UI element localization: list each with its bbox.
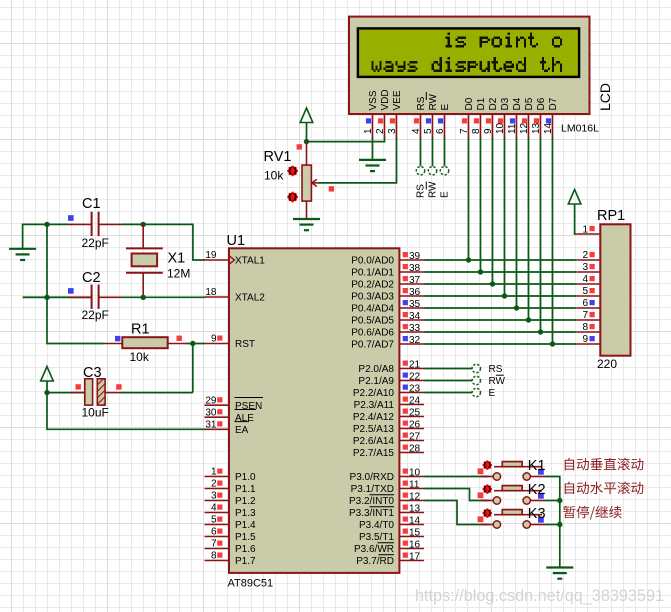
svg-text:11: 11 [409,479,420,490]
push button K2 [478,482,546,504]
wire P0.7 to RP1 [424,343,576,345]
junction D5/P0.5 [526,317,531,322]
svg-text:3: 3 [582,262,588,273]
power terminal C3 [41,367,54,382]
wire D2 down to P0.2 node [492,138,494,285]
wire D6 down to P0.6 node [540,138,542,333]
svg-text:C1: C1 [82,196,101,212]
svg-text:P0.4/AD4: P0.4/AD4 [351,304,394,315]
svg-text:21: 21 [409,359,421,370]
svg-text:9: 9 [211,334,217,345]
svg-text:P3.1/TXD: P3.1/TXD [351,484,394,495]
svg-text:P2.6/A14: P2.6/A14 [353,436,395,447]
LCD pin 6 (E) [435,104,451,139]
svg-text:E: E [440,104,451,111]
wire VSS pin1 to ground [372,138,374,161]
U1 pin 26 P2.5/A13 [353,419,424,435]
junction D6/P0.6 [538,329,543,334]
U1 pin 14 P3.4/T0 [359,515,424,531]
svg-text:9: 9 [483,128,494,134]
svg-text:VDD: VDD [380,89,391,110]
svg-text:11: 11 [507,123,518,134]
svg-text:3: 3 [387,128,398,134]
wire P3.2 to K3 [424,501,489,525]
svg-text:P0.5/AD5: P0.5/AD5 [351,316,394,327]
svg-text:10k: 10k [264,169,284,183]
svg-text:AT89C51: AT89C51 [228,578,274,590]
svg-text:E: E [440,191,451,198]
svg-text:5: 5 [582,286,588,297]
svg-text:17: 17 [409,551,421,562]
U1 pin 33 P0.6/AD6 [351,323,424,339]
svg-text:12: 12 [409,491,421,502]
LCD pin 7 (D0) [459,97,475,138]
RP1 pin 8 [576,322,600,333]
svg-text:P0.7/AD7: P0.7/AD7 [351,340,394,351]
wire LCD RS to terminal [420,138,422,167]
U1 pin 37 P0.2/AD2 [351,275,424,291]
svg-text:22: 22 [409,371,421,382]
RP1 pin 5 [576,286,600,297]
svg-text:4: 4 [582,274,588,285]
power terminal RV1 VDD [300,108,313,123]
svg-text:LCD: LCD [597,83,613,111]
ground under RV1 [293,219,320,230]
wire P0.5 to RP1 [424,319,576,321]
wire LCD E to terminal [444,138,446,167]
U1 pin 24 P2.3/A11 [354,395,424,411]
svg-text:24: 24 [409,395,421,406]
svg-text:K3: K3 [528,506,546,522]
U1 pin 13 P3.3/INT1 [349,503,424,519]
wire P0.2 to RP1 [424,283,576,285]
svg-text:P2.0/A8: P2.0/A8 [358,364,394,375]
wire VDD pin2 to RV1 top node [307,138,385,142]
svg-text:7: 7 [582,310,588,321]
svg-text:9: 9 [582,334,588,345]
terminal RS under LCD [416,167,424,175]
svg-text:P3.4/T0: P3.4/T0 [359,520,394,531]
wire D0 down to P0.0 node [468,138,470,261]
svg-text:27: 27 [409,431,421,442]
U1 pin 31 EA [205,420,249,436]
U1 pin 3 P1.2 [205,491,257,507]
U1 pin 12 P3.2/INT0 [349,491,424,507]
svg-text:RV1: RV1 [264,149,292,165]
LCD pin 5 (RW) [423,92,439,138]
svg-text:P0.2/AD2: P0.2/AD2 [351,280,394,291]
wire P3.0 to K1 [424,476,489,478]
resistor R1 [104,337,186,348]
wire VEE pin3 to RV1 wiper [318,138,397,183]
svg-text:RW: RW [489,376,506,387]
LCD screen [358,28,579,77]
svg-text:K2: K2 [528,482,546,498]
svg-text:10uF: 10uF [82,406,109,420]
svg-text:28: 28 [409,443,421,454]
U1 pin 9 RST [205,334,256,350]
svg-text:220: 220 [597,357,617,371]
svg-text:15: 15 [409,527,421,538]
capacitor C2 [23,285,122,309]
junction D1/P0.1 [478,269,483,274]
svg-text:8: 8 [211,551,217,562]
RP1 pin 7 [576,310,600,321]
svg-text:P2.3/A11: P2.3/A11 [354,400,395,411]
junction C1/X1/XTAL1 [44,222,49,227]
wire P0.0 to RP1 [424,259,576,261]
svg-text:RW: RW [428,93,439,110]
svg-text:25: 25 [409,407,421,418]
svg-text:D1: D1 [476,97,487,110]
U1 pin 19 XTAL1 [205,250,266,266]
wire D4 down to P0.4 node [516,138,518,309]
svg-text:D0: D0 [464,97,475,110]
wire LCD RW to terminal [432,138,434,167]
svg-text:RP1: RP1 [597,208,625,224]
svg-text:P0.3/AD3: P0.3/AD3 [351,292,394,303]
U1 pin 10 P3.0/RXD [350,467,424,483]
wire D1 down to P0.1 node [480,138,482,273]
svg-text:39: 39 [409,251,421,262]
potentiometer RV1 [302,142,318,219]
svg-text:P1.3: P1.3 [235,508,256,519]
wire left column C2 to R1 row [47,297,104,343]
svg-text:K1: K1 [528,458,546,474]
svg-text:37: 37 [409,275,421,286]
LCD pin 3 (VEE) [387,90,403,138]
U1 pin 27 P2.6/A14 [353,431,424,447]
svg-text:RS: RS [416,96,427,110]
crystal X1 [126,224,163,297]
terminal RW [472,376,480,384]
RV1 actuator knob [287,192,298,203]
LCD pin 1 (VSS) [363,90,379,138]
U1 pin 35 P0.4/AD4 [351,299,424,315]
svg-text:6: 6 [582,298,588,309]
svg-text:31: 31 [205,420,217,431]
U1 pin 7 P1.6 [205,539,257,555]
svg-text:P3.7/RD: P3.7/RD [356,556,394,567]
svg-text:D7: D7 [548,97,559,110]
U1 pin 22 P2.1/A9 [358,371,424,387]
resistor pack RP1 body [600,224,630,355]
svg-text:E: E [489,388,496,399]
svg-text:1: 1 [211,467,217,478]
svg-text:22pF: 22pF [82,236,109,250]
svg-text:35: 35 [409,299,421,310]
svg-text:P1.5: P1.5 [235,532,256,543]
svg-text:P3.2/INT0: P3.2/INT0 [349,496,394,507]
U1 pin 29 PSEN [205,395,263,411]
svg-text:P2.1/A9: P2.1/A9 [358,376,394,387]
U1 pin 5 P1.4 [205,515,257,531]
svg-text:7: 7 [459,128,470,134]
junction D4/P0.4 [514,305,519,310]
U1 pin 28 P2.7/A15 [353,443,424,459]
svg-text:13: 13 [531,122,542,134]
svg-text:2: 2 [211,479,217,490]
U1 pin 36 P0.3/AD3 [351,287,424,303]
svg-text:2: 2 [375,128,386,134]
svg-text:XTAL1: XTAL1 [235,256,265,267]
U1 pin 39 P0.0/AD0 [351,251,424,267]
svg-text:33: 33 [409,323,421,334]
U1 pin 30 ALE [205,407,255,423]
svg-text:C2: C2 [82,270,101,286]
U1 pin 23 P2.2/A10 [353,383,424,399]
svg-text:RW: RW [428,181,439,198]
wire P2.0 to terminal RS [424,368,472,370]
junction R1/C3/RST [190,341,195,346]
microcontroller U1 AT89C51 body [229,248,399,573]
chinese label for K2 [565,482,644,495]
svg-text:P0.6/AD6: P0.6/AD6 [351,328,394,339]
terminal E under LCD [440,167,448,175]
wire C3 node up to RST row [192,344,194,393]
svg-text:7: 7 [211,539,217,550]
power terminal RP1 [568,190,581,205]
svg-text:23: 23 [409,383,421,394]
U1 pin 8 P1.7 [205,551,257,567]
LCD pin 12 (D5) [519,97,535,138]
svg-text:1: 1 [363,128,374,134]
svg-text:RS: RS [416,184,427,198]
junction D3/P0.3 [502,293,507,298]
svg-text:5: 5 [211,515,217,526]
wire C1 row [23,224,69,248]
svg-text:P2.7/A15: P2.7/A15 [353,448,395,459]
svg-text:P2.4/A12: P2.4/A12 [353,412,395,423]
capacitor C1 [69,212,123,236]
RP1 pin 1 [576,225,600,236]
wire D3 down to P0.3 node [504,138,506,297]
svg-text:12: 12 [519,122,530,134]
svg-text:R1: R1 [131,322,150,338]
ground under LCD VSS [359,160,386,171]
LCD pin 9 (D2) [483,97,499,138]
wire power to RV1 node [306,123,308,142]
svg-text:P2.2/A10: P2.2/A10 [353,388,395,399]
wire C2 to XTAL2 [122,296,205,298]
chinese label for K1 [565,458,644,471]
wire XTAL1 [143,224,205,260]
svg-text:4: 4 [211,503,217,514]
junction D7/P0.7 [550,341,555,346]
svg-text:P0.0/AD0: P0.0/AD0 [351,256,394,267]
svg-text:XTAL2: XTAL2 [235,293,265,304]
svg-text:D4: D4 [512,97,523,110]
svg-text:P3.3/INT1: P3.3/INT1 [349,508,394,519]
LCD pin 8 (D1) [471,97,487,138]
wire P0.3 to RP1 [424,295,576,297]
terminal E [472,388,480,396]
wire P0.4 to RP1 [424,307,576,309]
svg-text:P1.7: P1.7 [235,556,256,567]
svg-text:18: 18 [205,287,217,298]
svg-text:VEE: VEE [392,90,403,110]
svg-text:VSS: VSS [368,90,379,110]
ground buttons [546,568,573,579]
svg-text:P1.0: P1.0 [235,472,256,483]
wire K1 K2 K3 common rail [545,477,560,568]
XTAL1 clock marker [229,256,235,265]
wire power to RP1 pin 1 [575,204,577,234]
U1 pin 17 P3.7/RD [356,551,424,567]
wire C3 to R1 junction column [120,392,193,394]
svg-text:P0.1/AD1: P0.1/AD1 [351,268,394,279]
junction RV1 top node [304,139,309,144]
svg-text:RS: RS [489,364,503,375]
LCD pin 13 (D6) [531,97,547,138]
svg-text:13: 13 [409,503,421,514]
svg-text:LM016L: LM016L [561,123,599,135]
svg-text:P1.1: P1.1 [235,484,256,495]
svg-text:D2: D2 [488,97,499,110]
LCD screen text row 2 "ways disputed th" [371,57,562,72]
svg-text:29: 29 [205,395,217,406]
svg-text:8: 8 [471,128,482,134]
junction D0/P0.0 [466,257,471,262]
svg-text:P3.5/T1: P3.5/T1 [359,532,394,543]
LCD screen text row 1 "is point o" [446,32,563,47]
RP1 pin 6 [576,298,600,309]
wire P0.1 to RP1 [424,271,576,273]
junction rail K3 [557,522,562,527]
U1 pin 25 P2.4/A12 [353,407,424,423]
svg-text:PSEN: PSEN [235,401,262,412]
svg-text:10: 10 [409,467,421,478]
RP1 pin 2 [576,250,600,261]
LCD display LM016L body [349,17,590,114]
push button K1 [478,458,546,480]
LCD pin 10 (D3) [495,97,511,138]
svg-text:16: 16 [409,539,421,550]
svg-text:14: 14 [543,122,554,134]
junction rail K2 [557,498,562,503]
terminal RW under LCD [428,167,436,175]
svg-text:6: 6 [211,527,217,538]
svg-text:38: 38 [409,263,421,274]
U1 pin 32 P0.7/AD7 [351,335,424,351]
svg-text:22pF: 22pF [82,308,109,322]
svg-text:P1.2: P1.2 [235,496,256,507]
push button K3 [478,506,546,528]
wire R1 to RST [186,343,205,345]
ground left of C1 [9,249,36,260]
svg-text:1: 1 [582,225,588,236]
RP1 pin 9 [576,334,600,345]
U1 pin 15 P3.5/T1 [359,527,424,543]
svg-text:D5: D5 [524,97,535,110]
svg-text:19: 19 [205,250,217,261]
svg-text:32: 32 [409,335,421,346]
svg-text:10k: 10k [130,350,150,364]
svg-text:P1.4: P1.4 [235,520,256,531]
svg-text:D6: D6 [536,97,547,110]
svg-text:10: 10 [495,122,506,134]
U1 pin 6 P1.5 [205,527,257,543]
svg-text:P1.6: P1.6 [235,544,256,555]
U1 pin 21 P2.0/A8 [358,359,424,375]
U1 pin 11 P3.1/TXD [351,479,424,495]
wire D5 down to P0.5 node [528,138,530,321]
junction D2/P0.2 [490,281,495,286]
wire left column C1 to C2 [46,224,48,297]
svg-text:5: 5 [423,128,434,134]
svg-text:6: 6 [435,128,446,134]
U1 pin 16 P3.6/WR [354,539,424,555]
svg-text:C3: C3 [83,365,102,381]
svg-text:P3.0/RXD: P3.0/RXD [350,472,394,483]
chinese label for K3 [563,506,621,520]
svg-text:4: 4 [411,128,422,134]
U1 pin 34 P0.5/AD5 [351,311,424,327]
wire C3 node down to EA [47,393,205,430]
svg-text:D3: D3 [500,97,511,110]
U1 pin 38 P0.1/AD1 [351,263,424,279]
wire P3.1 to K2 [424,489,489,501]
svg-text:X1: X1 [168,251,186,267]
svg-text:36: 36 [409,287,421,298]
svg-text:12M: 12M [167,267,190,281]
svg-text:30: 30 [205,407,217,418]
U1 pin 4 P1.3 [205,503,257,519]
terminal RS [472,364,480,372]
LCD pin 11 (D4) [507,97,523,138]
LCD pin 14 (D7) [543,97,559,138]
svg-text:P3.6/WR: P3.6/WR [354,544,394,555]
wire C1 to X1 top [122,223,143,225]
wire P0.6 to RP1 [424,331,576,333]
svg-text:8: 8 [582,322,588,333]
wire P2.2 to terminal E [424,392,472,394]
junction C3 node [44,390,49,395]
U1 pin 18 XTAL2 [205,287,266,303]
svg-text:P2.5/A13: P2.5/A13 [353,424,395,435]
svg-text:RST: RST [235,339,255,350]
LCD pin 4 (RS) [411,96,427,138]
U1 pin 1 P1.0 [205,467,257,483]
RP1 pin 3 [576,262,600,273]
svg-text:26: 26 [409,419,421,430]
LCD pin 2 (VDD) [375,89,391,138]
svg-text:3: 3 [211,491,217,502]
RV1 actuator knob [287,166,298,177]
wire P2.1 to terminal RW [424,380,472,382]
RP1 pin 4 [576,274,600,285]
svg-text:ALE: ALE [235,413,254,424]
svg-text:14: 14 [409,515,421,526]
svg-text:U1: U1 [227,233,246,249]
U1 pin 2 P1.1 [205,479,257,495]
wire power arrow to C3 node [46,381,48,393]
svg-text:2: 2 [582,250,588,261]
svg-text:34: 34 [409,311,421,322]
svg-text:https://blog.csdn.net/qq_38393: https://blog.csdn.net/qq_38393591 [415,586,664,605]
wire D7 down to P0.7 node [552,138,554,345]
svg-text:EA: EA [235,425,249,436]
